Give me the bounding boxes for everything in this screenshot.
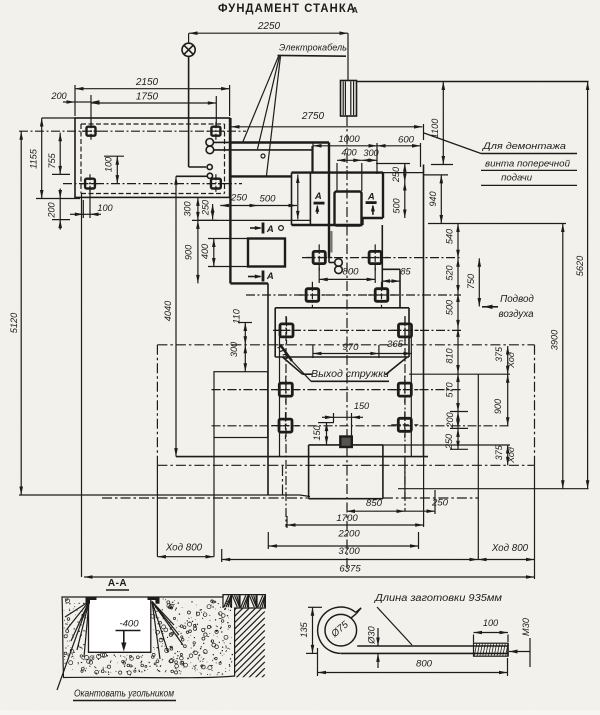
pedestal block (308, 445, 310, 499)
dimension 800 apron (319, 278, 375, 280)
dim 5620 (587, 82, 589, 489)
dim Ход 800 right (478, 559, 535, 561)
svg-text:250: 250 (230, 193, 248, 204)
extension to wall box (347, 33, 349, 80)
dim 800 (318, 672, 508, 674)
svg-text:1750: 1750 (136, 92, 159, 103)
travel extension left down (156, 465, 158, 556)
line y374 extension right (409, 373, 510, 375)
section mark A right-pair right (366, 201, 377, 204)
svg-text:375: 375 (494, 444, 504, 460)
chain ticks (450, 411, 468, 413)
wall junction box (341, 81, 357, 117)
svg-text:570: 570 (444, 381, 454, 397)
dim 850 (347, 510, 406, 512)
dimension 2750 (231, 126, 423, 128)
concrete speckles (64, 599, 233, 676)
svg-text:110: 110 (231, 308, 241, 324)
angle iron right (148, 597, 160, 604)
line y445 extension right (383, 444, 510, 446)
svg-text:A: A (314, 191, 322, 202)
pit recess (89, 599, 151, 653)
svg-text:150: 150 (354, 401, 370, 411)
bed left edge (229, 118, 231, 283)
svg-text:85: 85 (400, 266, 411, 276)
vertical ref x478 (477, 374, 479, 559)
dimension 300 (362, 159, 377, 161)
chain 375 hod top (507, 346, 509, 374)
svg-text:150: 150 (312, 424, 322, 440)
svg-text:Длина заготовки 935мм: Длина заготовки 935мм (374, 593, 502, 604)
dimension 250 inside bed (220, 205, 258, 207)
chute break mark (280, 345, 292, 362)
wall hatch strip (235, 580, 265, 705)
motor bolt M4 (211, 179, 221, 189)
brick band (222, 595, 224, 608)
extension 6375 left (81, 194, 83, 577)
dimension 970 (313, 353, 379, 355)
bed step bottom-left (230, 282, 268, 284)
dim 3700 (222, 559, 478, 561)
dim 100 thread (474, 632, 509, 634)
dim 3900 (562, 224, 564, 489)
dimension 2250 (189, 32, 348, 34)
bolt column centerline right (404, 316, 406, 511)
svg-text:900: 900 (183, 244, 193, 260)
dimension 100 vertical (116, 156, 118, 183)
motor bolt M2 (211, 127, 220, 136)
pocket top extension (208, 238, 248, 240)
svg-text:1000: 1000 (338, 134, 360, 145)
svg-text:Для демонтажа: Для демонтажа (482, 141, 566, 152)
foundation front line (176, 456, 428, 458)
svg-text:135: 135 (299, 621, 309, 637)
building wall line top (357, 81, 589, 83)
dimension 1100 (442, 82, 444, 165)
row1 centerline (302, 257, 461, 259)
chain 810 (457, 328, 459, 373)
svg-text:2250: 2250 (257, 21, 281, 32)
chain 520 (457, 258, 459, 293)
motor bolt M3 (85, 179, 95, 189)
svg-text:A: A (266, 271, 274, 282)
extension lines upper dims (312, 142, 314, 172)
dash-dot below pedestal (102, 497, 308, 499)
cable run 1 (213, 141, 231, 143)
cable run 2 (214, 149, 312, 151)
foundation bottom right line (398, 488, 589, 490)
row3 centerline (276, 329, 461, 331)
anchor bolt row5 left (279, 419, 292, 432)
bolt row centerline top (19, 130, 246, 132)
chain 200 (457, 412, 459, 429)
svg-text:250: 250 (200, 199, 210, 216)
anchor bolt row4 left (279, 383, 292, 396)
dim 400 pocket vertical (213, 239, 215, 267)
bolt column centerline left (285, 316, 287, 527)
svg-text:подачи: подачи (501, 173, 533, 184)
bed base sides (274, 308, 276, 357)
svg-text:900: 900 (493, 398, 503, 414)
anchor bolt row1 right (369, 251, 381, 263)
dim 300 left vertical (197, 197, 199, 220)
apron circles (335, 259, 343, 267)
svg-text:500: 500 (259, 194, 276, 205)
angle iron left (86, 597, 97, 604)
anchor fan right (152, 602, 174, 626)
chain 375 hod bottom (507, 445, 509, 465)
dim 4040 (175, 176, 177, 456)
carriage outline (292, 171, 384, 173)
carriage right lower edge (381, 225, 383, 289)
svg-text:М30: М30 (521, 617, 531, 636)
dim 750 (478, 258, 480, 306)
foundation bottom-left line (19, 494, 300, 496)
svg-text:2750: 2750 (301, 111, 325, 122)
svg-text:250: 250 (431, 498, 449, 509)
svg-text:750: 750 (466, 273, 476, 289)
extension lines motor dims (74, 85, 76, 116)
svg-text:970: 970 (342, 342, 359, 353)
svg-text:1155: 1155 (28, 148, 38, 169)
right pocket (335, 192, 362, 226)
anchor bolt row1 left (313, 251, 325, 263)
svg-text:воздуха: воздуха (498, 309, 534, 320)
lamp symbol (182, 43, 195, 56)
wall edge right vertical (423, 124, 425, 140)
svg-text:Окантовать угольником: Окантовать угольником (74, 688, 174, 699)
svg-text:Ø30: Ø30 (366, 625, 376, 644)
foundation edge left of bed (267, 283, 269, 495)
inner line y220 (197, 219, 310, 221)
svg-text:5620: 5620 (575, 255, 585, 276)
reference line y457 right end ticks (424, 174, 448, 176)
svg-text:500: 500 (444, 299, 454, 315)
section mark A left-pair bottom (262, 271, 265, 282)
leader окантовать (57, 602, 89, 690)
anchor fan left (65, 602, 89, 618)
svg-text:винта поперечной: винта поперечной (485, 159, 571, 170)
dim 250 small vertical (212, 204, 214, 219)
chain 570 (457, 374, 459, 412)
dim 250 bottom (405, 510, 435, 512)
bed lower side right (410, 337, 412, 457)
leader chute (292, 361, 311, 381)
dim diameter 30 (377, 628, 379, 646)
svg-text:Ход: Ход (506, 352, 516, 369)
dim 250-500 pocket right chain (404, 163, 406, 182)
section mark A right-pair left (314, 202, 325, 205)
chain 500 (457, 294, 459, 329)
dim 1700 (287, 524, 424, 526)
svg-text:100: 100 (483, 618, 499, 628)
headstock inner vertical (309, 173, 311, 225)
dimension 600 (377, 145, 421, 147)
spindle axis centerline (346, 116, 348, 170)
svg-text:540: 540 (444, 228, 454, 244)
dimension 1000 (313, 145, 377, 147)
svg-text:-400: -400 (119, 619, 139, 630)
pit left extension down (213, 438, 215, 557)
vent hole circles (279, 226, 284, 231)
svg-text:755: 755 (47, 152, 57, 168)
svg-text:500: 500 (391, 197, 401, 213)
svg-text:6375: 6375 (339, 563, 361, 574)
anchor bolt row4 right (398, 383, 411, 396)
section mark A left-pair top (262, 223, 265, 234)
dim 110 (244, 323, 246, 345)
lamp drop wire (188, 33, 190, 43)
svg-text:250: 250 (391, 166, 401, 183)
travel zone dash-dot rect (157, 344, 534, 346)
svg-text:400: 400 (341, 147, 357, 157)
vertical dim line at bed left (297, 175, 299, 220)
dimension 85 (382, 280, 401, 282)
dimension 400 (337, 159, 362, 161)
dimension 200 left (59, 199, 61, 220)
chain 540 (457, 224, 459, 259)
svg-text:100: 100 (103, 156, 113, 172)
bolt rod (357, 645, 508, 647)
anchor bolt row2 right (375, 289, 388, 302)
svg-text:850: 850 (366, 498, 383, 509)
svg-text:400: 400 (200, 243, 210, 259)
row4 centerline (212, 389, 462, 391)
bed right edge (328, 143, 330, 259)
svg-text:A: A (266, 224, 274, 235)
svg-text:940: 940 (428, 190, 438, 206)
dim 150 horizontal (334, 416, 352, 418)
concrete block outline (62, 595, 265, 678)
svg-text:800: 800 (416, 659, 433, 670)
thread portion (474, 643, 509, 656)
leader to note (424, 133, 481, 154)
svg-text:1700: 1700 (336, 513, 358, 524)
dimension 1155 (41, 118, 43, 199)
svg-text:375: 375 (494, 346, 504, 362)
motor bolt M1 (87, 127, 96, 136)
dim 6375 (84, 576, 535, 578)
row5 centerline (212, 425, 511, 427)
svg-text:2150: 2150 (135, 77, 159, 88)
row2 centerline (246, 294, 461, 296)
dim 135 (312, 607, 314, 653)
svg-text:2200: 2200 (337, 529, 360, 540)
travel extension right down (534, 465, 536, 579)
chain 900 (507, 374, 509, 426)
chain 250 (457, 428, 459, 449)
svg-text:250: 250 (444, 433, 454, 450)
wire to 4040 ref (176, 175, 207, 177)
dim 940 (440, 175, 442, 224)
anchor bolt row2 left (306, 289, 319, 302)
carriage top extension to wall (383, 172, 424, 174)
cable leader lines (243, 56, 279, 141)
svg-text:A: A (367, 191, 375, 202)
svg-text:300: 300 (183, 200, 193, 216)
svg-text:300: 300 (229, 341, 239, 357)
bolt row centerline bottom (63, 183, 242, 185)
bolt hook (325, 614, 357, 646)
svg-text:200: 200 (445, 411, 455, 428)
svg-text:3900: 3900 (549, 329, 559, 350)
svg-text:Электрокабель: Электрокабель (279, 43, 347, 54)
svg-text:600: 600 (398, 135, 415, 146)
svg-text:Выход стружки: Выход стружки (311, 368, 389, 380)
svg-text:A-A: A-A (108, 578, 127, 589)
motor foundation rectangle (75, 118, 230, 197)
dimension 500 inside bed (258, 205, 297, 207)
svg-text:5120: 5120 (9, 312, 19, 333)
svg-text:Ход 800: Ход 800 (165, 543, 203, 554)
motor inner dashed rect (81, 123, 225, 125)
svg-text:200: 200 (50, 91, 67, 101)
right box 85 (382, 268, 401, 270)
dim Ход 800 left (157, 556, 214, 558)
bed lower side left (279, 337, 281, 457)
svg-text:4040: 4040 (163, 300, 173, 321)
svg-text:100: 100 (97, 203, 113, 213)
cable drop at 312 (311, 146, 313, 172)
left pocket (248, 239, 285, 267)
dim 2200 (269, 545, 419, 547)
dimension 5120 (20, 131, 22, 495)
svg-text:800: 800 (342, 267, 359, 278)
cable duct shading (330, 231, 332, 253)
dim 900 left vertical (197, 220, 199, 283)
svg-text:ФУНДАМЕНТ СТАНКА: ФУНДАМЕНТ СТАНКА (218, 1, 356, 15)
air supply label (482, 306, 498, 308)
svg-text:520: 520 (444, 264, 454, 280)
bed bottom narrow (309, 444, 341, 446)
svg-text:A: A (352, 6, 358, 15)
svg-text:200: 200 (46, 201, 56, 218)
bed base wide line (275, 307, 409, 309)
dimension 2150 (75, 88, 230, 90)
headstock bottom edge (230, 175, 291, 177)
terminal circles (207, 164, 212, 169)
svg-text:3700: 3700 (338, 546, 360, 557)
dimension 755 (59, 133, 61, 175)
svg-text:Подвод: Подвод (500, 294, 534, 305)
pit rectangle (214, 372, 268, 438)
tailstock key bolt (340, 437, 352, 448)
anchor bolt row3 left (280, 324, 293, 337)
dimension 1750 (91, 102, 216, 104)
dimension 100 bottom (83, 213, 90, 215)
cable circles at motor (206, 139, 214, 147)
dimension 200 top (75, 101, 91, 103)
anchor bolt row5 right (398, 418, 411, 431)
dim 150 vertical (326, 423, 328, 445)
dim 300 pit (244, 345, 246, 372)
leader to rod (377, 607, 412, 645)
svg-text:Ход 800: Ход 800 (491, 543, 529, 554)
dimension 365 (379, 353, 412, 355)
chip chute trapezoid (275, 356, 409, 358)
bed top edge (230, 141, 329, 143)
anchor bolt row3 right (399, 324, 412, 337)
svg-text:810: 810 (444, 347, 454, 363)
svg-text:Ход: Ход (506, 447, 516, 464)
